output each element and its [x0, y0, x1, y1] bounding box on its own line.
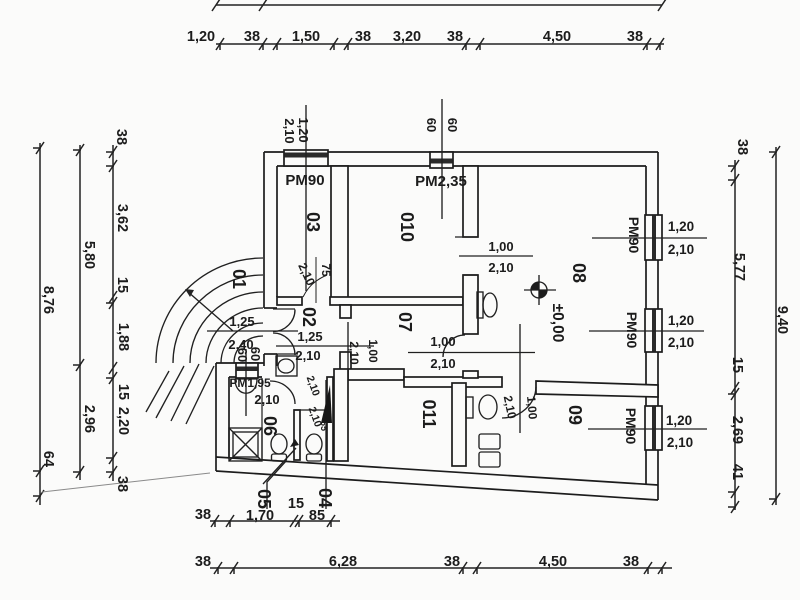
stairs direction line with arrow: [185, 289, 233, 331]
door leaves entrance 1,25: [273, 308, 295, 310]
window PM2,35 top: [430, 152, 453, 168]
fraction line window right 2: [589, 330, 704, 332]
axis line bay window: [245, 349, 247, 416]
svg-text:02: 02: [299, 307, 319, 327]
svg-text:09: 09: [565, 405, 585, 425]
svg-text:1,00: 1,00: [430, 334, 455, 349]
svg-text:38: 38: [195, 554, 211, 570]
window bay PM1,95: [236, 363, 258, 378]
wall 03 south (left part): [277, 297, 302, 305]
leader label 05: [267, 461, 286, 509]
outer wall left with door opening: [264, 152, 277, 366]
svg-text:05: 05: [254, 489, 274, 509]
svg-text:PM90: PM90: [626, 217, 642, 254]
svg-text:2,10: 2,10: [347, 341, 361, 365]
svg-text:38: 38: [623, 554, 639, 570]
svg-text:38: 38: [447, 29, 463, 45]
svg-text:04: 04: [315, 488, 335, 508]
washbasin under bay window: [235, 379, 257, 393]
svg-text:2,20: 2,20: [115, 407, 131, 435]
svg-text:38: 38: [444, 554, 460, 570]
svg-text:6,28: 6,28: [329, 554, 357, 570]
fraction line 1,25/2,40: [207, 330, 298, 332]
svg-text:1,20: 1,20: [668, 313, 694, 328]
svg-text:03: 03: [303, 212, 323, 232]
svg-text:010: 010: [397, 212, 417, 242]
bay outer wall left: [216, 363, 229, 471]
partition line room 06: [261, 378, 263, 460]
left dimension line 5,80/2,96: [73, 144, 84, 480]
left dimension line 8,76/64: [33, 142, 44, 505]
svg-text:38: 38: [244, 29, 260, 45]
svg-text:5,80: 5,80: [81, 241, 97, 269]
svg-text:75: 75: [319, 263, 333, 277]
svg-text:60: 60: [445, 118, 460, 132]
fraction line corridor 1,00/2,10: [408, 352, 535, 354]
bottom dimension line 38/6,28/38/4,50/38: [210, 562, 672, 574]
svg-text:±0,00: ±0,00: [549, 304, 566, 343]
svg-text:15: 15: [114, 277, 130, 293]
fraction line window right 1: [592, 237, 707, 239]
stairs winder treads: [156, 258, 263, 363]
svg-text:60: 60: [424, 118, 439, 132]
wall 010|08 upper: [463, 166, 478, 237]
svg-text:2,40: 2,40: [228, 337, 253, 352]
shelf line room 05: [294, 409, 327, 411]
wall 07|011 west part: [348, 369, 404, 380]
svg-text:65: 65: [319, 421, 329, 431]
door size labels: [228, 239, 513, 407]
fraction line 1,25/2,10: [276, 345, 374, 347]
svg-text:1,88: 1,88: [115, 323, 131, 351]
wall 09 north (slanted): [536, 381, 658, 397]
svg-text:38: 38: [627, 29, 643, 45]
toilet room 05: [271, 434, 287, 461]
svg-text:85: 85: [309, 508, 325, 524]
wall 011|09: [452, 383, 466, 466]
left dimension line 38/3,62/15/1,88/15/2,20/38: [106, 145, 117, 481]
svg-text:38: 38: [195, 507, 211, 523]
svg-text:1,50: 1,50: [292, 29, 320, 45]
toilet room 04: [306, 434, 322, 461]
door arc 09: [502, 387, 536, 418]
svg-text:8,76: 8,76: [40, 286, 56, 314]
window PM90 right 1: [645, 215, 662, 260]
svg-text:2,10: 2,10: [295, 348, 320, 363]
door axis cross corridor: [519, 324, 521, 433]
outer wall right: [646, 152, 658, 500]
wall notch at 010 column: [463, 371, 478, 378]
svg-text:2,10: 2,10: [667, 435, 693, 450]
svg-text:PM90: PM90: [623, 408, 639, 445]
svg-text:1,00: 1,00: [366, 339, 380, 363]
axis line window PM90 top: [305, 105, 307, 291]
annotation arrow to entrance: [263, 439, 299, 484]
svg-text:38: 38: [734, 139, 750, 155]
right dimension line 9,40: [769, 146, 780, 505]
svg-text:38: 38: [355, 29, 371, 45]
svg-text:1,00: 1,00: [524, 395, 540, 420]
axis line window PM2,35: [441, 99, 443, 219]
door 03 leader and axis: [303, 275, 327, 297]
svg-text:15: 15: [288, 496, 304, 512]
svg-text:4,50: 4,50: [543, 29, 571, 45]
door axis cross 02: [347, 322, 349, 370]
svg-text:1,70: 1,70: [246, 508, 274, 524]
room number labels (rotated): [229, 212, 589, 509]
leader label 04: [325, 380, 327, 509]
door arc 010|08: [443, 335, 465, 357]
svg-text:2,10: 2,10: [488, 260, 513, 275]
svg-text:64: 64: [40, 451, 56, 467]
fraction line 010 door 1,00/2,10: [459, 255, 533, 257]
svg-text:01: 01: [229, 269, 249, 289]
svg-text:3,62: 3,62: [114, 204, 130, 232]
wall 06|05: [294, 410, 300, 460]
wall 02|07 lower: [340, 352, 351, 372]
svg-text:2,10: 2,10: [668, 335, 694, 350]
door jamb 010|08: [455, 236, 478, 238]
svg-text:2,69: 2,69: [729, 416, 745, 444]
svg-text:2,10: 2,10: [668, 242, 694, 257]
right dimension line 38/5,77/15/2,69/41: [728, 160, 739, 513]
svg-text:PM1,95: PM1,95: [229, 376, 271, 390]
top dimension line 1,20/38/1,50/38/3,20/38/4,50/38: [216, 38, 664, 50]
svg-text:4,50: 4,50: [539, 554, 567, 570]
wall corridor south-east part: [404, 377, 502, 387]
stove room 09: [479, 434, 500, 467]
svg-text:9,40: 9,40: [774, 306, 790, 334]
svg-text:1,00: 1,00: [488, 239, 513, 254]
window labels above top wall (rotated): [235, 117, 460, 362]
svg-text:06: 06: [260, 416, 280, 436]
wall 02|07 upper: [340, 305, 351, 318]
fraction line window right 3: [588, 428, 707, 430]
svg-text:1,20: 1,20: [666, 413, 692, 428]
svg-text:41: 41: [729, 464, 745, 480]
svg-text:PM2,35: PM2,35: [415, 173, 467, 190]
svg-text:38: 38: [114, 476, 130, 492]
window PM codes: [285, 172, 466, 190]
bottom dimension line 38/1,70/15/85: [210, 515, 340, 527]
washbasin room 08: [477, 292, 497, 318]
right window size labels: [666, 219, 694, 450]
window PM90 right 2: [645, 309, 662, 352]
svg-text:15: 15: [729, 357, 745, 373]
svg-text:1,25: 1,25: [297, 329, 322, 344]
svg-text:5,77: 5,77: [731, 253, 747, 281]
wall 010|08 lower: [463, 275, 478, 334]
survey benchmark ±0,00: [524, 275, 556, 305]
svg-text:1,20: 1,20: [187, 29, 215, 45]
outer wall top: [264, 152, 658, 166]
window PM90 top: [284, 150, 328, 166]
wall 05|04: [327, 377, 333, 461]
svg-text:15: 15: [115, 384, 131, 400]
wall 011 west: [334, 369, 348, 461]
svg-text:1,25: 1,25: [229, 314, 254, 329]
top overall dimension line: [212, 0, 666, 11]
svg-text:38: 38: [113, 129, 129, 145]
svg-text:011: 011: [419, 399, 439, 428]
svg-text:2,10: 2,10: [254, 392, 279, 407]
svg-text:2,96: 2,96: [81, 405, 97, 433]
washbasin room 02: [276, 356, 297, 376]
svg-text:08: 08: [569, 263, 589, 283]
svg-text:2,10: 2,10: [282, 118, 297, 143]
svg-text:1,20: 1,20: [296, 117, 311, 142]
shower tray: [229, 428, 262, 461]
svg-text:3,20: 3,20: [393, 29, 421, 45]
svg-text:1,20: 1,20: [668, 219, 694, 234]
window PM90 right 3: [645, 406, 662, 450]
wall 03/07 north (right part): [330, 297, 463, 305]
stairs treads along bay: [186, 366, 214, 424]
wall 03|010: [331, 166, 348, 299]
svg-text:2,10: 2,10: [430, 356, 455, 371]
entrance arrow (filled): [321, 385, 332, 423]
svg-text:PM90: PM90: [624, 312, 640, 349]
svg-text:PM90: PM90: [285, 172, 324, 189]
terrain line: [42, 473, 210, 492]
outer wall bottom (slanted): [216, 457, 658, 500]
svg-text:07: 07: [395, 312, 415, 332]
washbasin room 09: [466, 395, 497, 419]
bay top wall: [216, 363, 264, 377]
door arc 06: [270, 381, 295, 404]
